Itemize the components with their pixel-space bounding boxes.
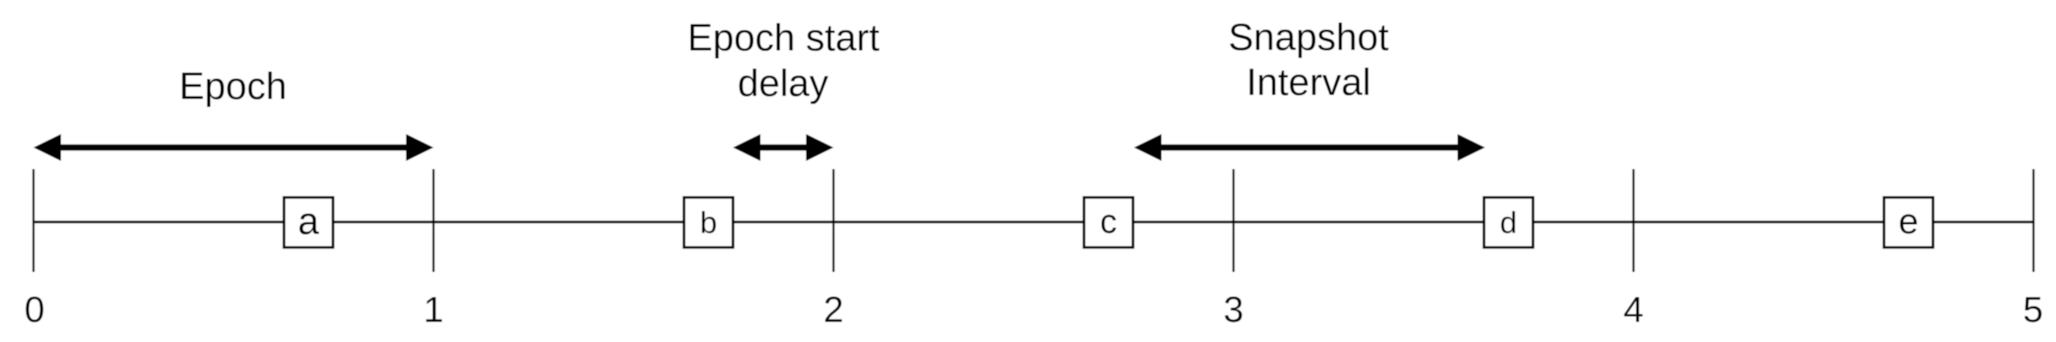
svg-text:0: 0 [24,289,44,330]
svg-text:e: e [1898,200,1918,241]
timeline axis [34,221,2034,224]
label Epoch start delay [687,18,880,105]
svg-text:3: 3 [1223,289,1243,330]
arrow Epoch-start-delay (double-headed, box b to tick2) [733,134,834,161]
tick 1 [432,169,434,272]
tick 2 [832,169,834,272]
svg-text:b: b [700,205,717,240]
arrow Snapshot-Interval (double-headed, box c to box d) [1134,134,1485,161]
box c [1084,197,1133,247]
svg-text:c: c [1100,203,1117,241]
svg-text:Snapshot: Snapshot [1228,17,1389,59]
tick 5 [2032,169,2034,272]
label Snapshot Interval [1228,17,1389,104]
svg-text:Epoch: Epoch [179,66,287,108]
svg-text:1: 1 [423,289,443,330]
box e [1884,197,1933,247]
svg-text:2: 2 [823,289,843,330]
svg-text:5: 5 [2023,289,2043,330]
svg-text:a: a [298,201,320,243]
tick 4 [1632,169,1634,272]
svg-text:d: d [1500,205,1517,240]
svg-text:4: 4 [1623,289,1643,330]
svg-text:Epoch start: Epoch start [687,18,880,60]
arrow Epoch (double-headed, tick0 to tick1) [34,134,434,161]
svg-text:Interval: Interval [1246,62,1371,104]
box a [284,197,333,247]
box b [684,197,733,247]
box d [1484,197,1533,247]
tick 3 [1232,169,1234,272]
tick 0 [32,169,34,272]
svg-text:delay: delay [738,63,829,105]
